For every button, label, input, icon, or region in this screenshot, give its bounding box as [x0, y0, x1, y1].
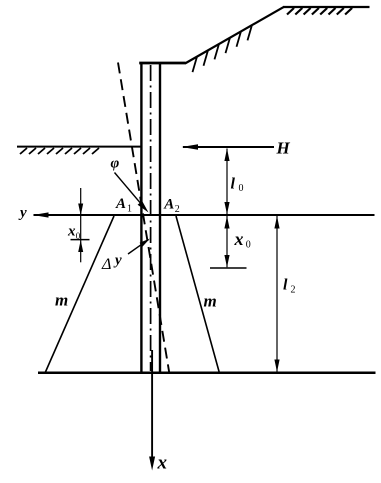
svg-text:1: 1 — [127, 204, 132, 215]
svg-text:m: m — [204, 292, 217, 311]
left small dimension bar — [71, 239, 90, 241]
upper ground hatch — [287, 8, 352, 15]
y axis line — [34, 214, 375, 216]
svg-text:Δ: Δ — [101, 256, 111, 273]
x0 top arrowhead — [224, 216, 229, 229]
x axis line below — [151, 350, 153, 458]
svg-text:0: 0 — [246, 240, 251, 251]
l2 dimension line — [276, 216, 278, 373]
left m slope line — [45, 216, 114, 373]
slope hatch — [193, 25, 253, 72]
left small dim up arrowhead — [78, 240, 83, 252]
l0 top arrowhead — [224, 149, 229, 162]
svg-text:x: x — [234, 229, 244, 249]
phi leader arrowhead — [138, 201, 149, 213]
svg-text:x: x — [67, 224, 76, 240]
svg-text:l: l — [231, 176, 236, 193]
svg-text:2: 2 — [175, 204, 180, 215]
bottom line — [38, 372, 376, 375]
left small dim down arrowhead — [78, 204, 83, 216]
left small dimension line lower — [80, 240, 82, 262]
svg-text:φ: φ — [111, 156, 120, 172]
svg-text:H: H — [276, 139, 291, 158]
l0 dimension line — [226, 149, 228, 215]
y axis arrowhead — [33, 212, 49, 217]
right m slope line — [176, 216, 219, 373]
x0 bottom arrowhead — [224, 255, 229, 267]
svg-text:y: y — [18, 205, 27, 221]
horizontal force H line — [183, 146, 274, 148]
delta-y leader line — [128, 245, 141, 254]
left small dimension line upper — [80, 188, 82, 215]
svg-text:l: l — [283, 277, 288, 294]
svg-text:y: y — [113, 253, 122, 269]
x axis arrowhead — [149, 457, 155, 471]
delta-y leader arrowhead — [140, 239, 150, 247]
svg-text:A: A — [115, 196, 126, 212]
H arrowhead — [182, 144, 199, 149]
slope line — [185, 7, 284, 64]
pile centerline (dash-dot) — [150, 65, 152, 371]
l0 bottom arrowhead — [224, 202, 229, 214]
pile cap top line — [139, 62, 185, 65]
svg-text:2: 2 — [291, 285, 296, 296]
left ground hatch — [20, 148, 99, 154]
svg-text:x: x — [157, 453, 168, 474]
x0 bottom bar — [210, 267, 247, 269]
svg-text:m: m — [55, 291, 68, 310]
svg-text:A: A — [163, 197, 174, 213]
upper ground line — [283, 6, 370, 8]
left ground line — [17, 146, 141, 148]
dashed deflection line — [118, 63, 169, 374]
svg-text:0: 0 — [239, 183, 244, 194]
phi leader line — [115, 173, 141, 203]
left small dimension line middle — [80, 216, 82, 239]
pile left edge — [140, 63, 142, 373]
pile right edge — [159, 63, 161, 373]
svg-text:0: 0 — [76, 231, 81, 241]
x0 dimension line — [226, 216, 228, 268]
l2 bottom arrowhead — [274, 360, 279, 373]
l2 top arrowhead — [274, 216, 279, 229]
